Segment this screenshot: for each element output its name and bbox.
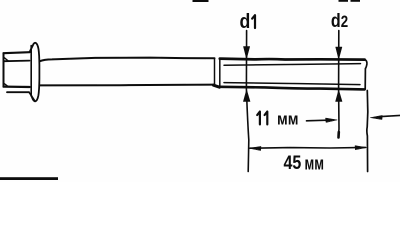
svg-text:d: d xyxy=(331,11,341,32)
d2 line end blob xyxy=(337,132,340,138)
d2 up arrowhead xyxy=(336,90,342,101)
flange lower junction xyxy=(29,92,35,100)
thread inner top line (minor diameter) xyxy=(224,64,361,66)
11 mm leader line left xyxy=(307,119,328,122)
hex upper facet line xyxy=(5,60,30,63)
d2 section line xyxy=(338,31,340,138)
flange front edge xyxy=(30,46,32,97)
svg-text:d: d xyxy=(240,11,251,33)
d2 down arrowhead xyxy=(336,47,342,59)
svg-text:45: 45 xyxy=(284,153,302,174)
shank end line xyxy=(214,58,216,84)
thread inner bottom line (minor diameter) xyxy=(224,83,360,85)
shank bottom edge xyxy=(40,84,215,87)
svg-text:мм: мм xyxy=(277,110,299,129)
45 mm right arrowhead (points right) xyxy=(355,146,366,150)
hex lower facet line xyxy=(7,91,29,93)
cropped caption dashes top-right xyxy=(339,0,349,2)
right extension line (bolt end) xyxy=(366,91,369,172)
11 mm leader line right xyxy=(381,115,400,116)
hex top-left chamfer notch xyxy=(4,57,9,61)
cropped rule bottom-left xyxy=(0,177,58,180)
thread section outer outline xyxy=(219,59,221,87)
cropped caption dash top-left xyxy=(193,0,209,2)
11 mm right arrowhead (points left) xyxy=(371,115,383,119)
45 mm dimension line xyxy=(250,146,366,149)
hex bottom-left chamfer notch xyxy=(4,83,9,87)
bolt flange (washer face) xyxy=(30,43,40,102)
11 mm dimension text xyxy=(257,112,260,125)
svg-text:мм: мм xyxy=(305,153,325,174)
d1 section line xyxy=(246,31,248,172)
11 mm left arrowhead (points right) xyxy=(326,118,338,122)
45 mm left arrowhead (points left) xyxy=(249,146,261,150)
svg-text:2: 2 xyxy=(341,13,348,31)
d1 down arrowhead xyxy=(244,47,250,59)
bolt hex head outline xyxy=(4,52,30,53)
shank top edge xyxy=(40,58,215,62)
d1 up arrowhead xyxy=(243,90,250,102)
shank/thread junction ink blob xyxy=(214,85,220,87)
